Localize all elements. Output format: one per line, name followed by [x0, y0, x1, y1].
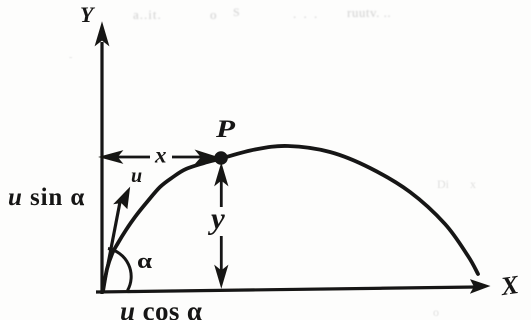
svg-text:a..it.: a..it. [133, 7, 162, 22]
x displacement arrow (double headed) [100, 151, 218, 164]
Y axis [96, 23, 109, 294]
projectile trajectory curve [103, 146, 478, 291]
svg-text:u cos α: u cos α [120, 296, 202, 320]
svg-text:α: α [137, 248, 153, 273]
svg-text:x: x [154, 143, 167, 168]
svg-text:y: y [207, 201, 225, 236]
faint ghost marks right [69, 52, 476, 319]
svg-text:o: o [210, 7, 217, 22]
svg-text:X: X [498, 270, 521, 301]
svg-text:P: P [215, 116, 236, 143]
X axis [96, 280, 489, 293]
svg-text:Di: Di [437, 177, 450, 191]
initial velocity vector u [103, 188, 130, 290]
point P dot [214, 151, 228, 165]
svg-text:S: S [233, 5, 240, 19]
svg-text:-: - [69, 52, 72, 63]
svg-text:ruutv. ..: ruutv. .. [347, 5, 391, 20]
svg-text:u sin α: u sin α [8, 184, 85, 211]
y displacement arrow (double headed) [215, 164, 227, 287]
angle alpha arc [108, 249, 131, 291]
svg-text:Y: Y [80, 2, 96, 27]
svg-text:x: x [470, 177, 476, 191]
faint ghost text top [133, 5, 391, 22]
svg-text:. . .: . . . [293, 6, 319, 21]
svg-text:u: u [131, 165, 142, 187]
svg-text:o: o [433, 305, 439, 319]
